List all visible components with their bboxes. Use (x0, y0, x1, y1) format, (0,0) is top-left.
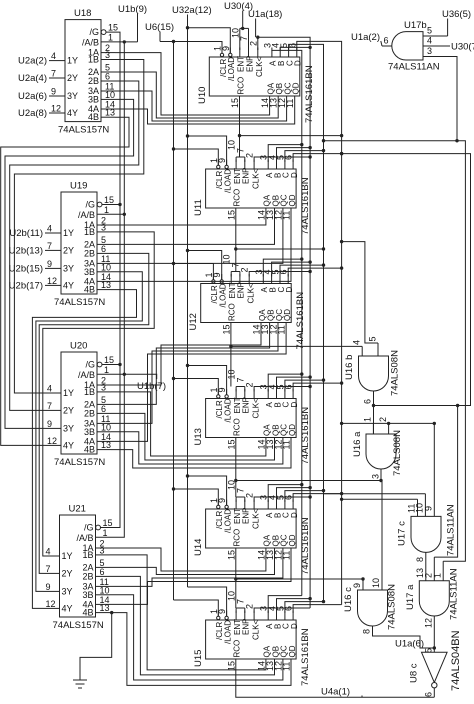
svg-text:U17 a: U17 a (405, 584, 416, 610)
wire U11 QB to U19 2A (111, 208, 275, 244)
wire U11 QA to U19 1A (111, 208, 266, 225)
svg-text:ENP: ENP (242, 168, 251, 184)
U16c input pin 10 stub (381, 481, 383, 591)
wire U13 QA to U20 1B (111, 392, 266, 456)
wire C bus junction to right corridor at y140.7 (324, 141, 466, 562)
wire B bus tap U11 (277, 148, 311, 162)
wire U21 1Y to U19 1B (43, 232, 154, 556)
U11 pin D (6) (292, 160, 294, 170)
svg-text:7: 7 (46, 564, 51, 574)
counter U15 74ALS161BN body (206, 620, 297, 659)
wire C bus tap U11 (285, 151, 324, 162)
svg-text:3Y: 3Y (62, 586, 73, 596)
svg-text:4B: 4B (82, 608, 93, 618)
svg-text:U32a(12): U32a(12) (172, 5, 212, 16)
svg-text:RCO: RCO (233, 529, 242, 547)
wire B bus tap U13 (277, 377, 311, 391)
wire U17a pin2 feeder from U16b output node (434, 406, 457, 558)
wire U12 QB to U20 2A (111, 323, 270, 405)
and gate U16b (74ALS08N) (359, 356, 389, 391)
svg-text:5: 5 (427, 26, 432, 36)
U17a output pin 12 to U8c input 5 (433, 616, 435, 652)
svg-text:U17b: U17b (404, 20, 427, 31)
wire C bus tap U13 (285, 380, 324, 391)
svg-text:1: 1 (103, 528, 108, 538)
U15 pin ENP (7) (244, 611, 246, 621)
svg-text:U1a(2): U1a(2) (351, 32, 380, 43)
U16b output pin 6 node (373, 391, 375, 434)
U12 pin ENP (7) (239, 274, 241, 284)
svg-text:U1b(9): U1b(9) (118, 4, 147, 15)
svg-text:D: D (294, 60, 303, 66)
svg-text:RCO: RCO (233, 640, 242, 658)
svg-text:ENT: ENT (228, 282, 237, 298)
svg-text:QD: QD (288, 424, 297, 436)
wire /LOAD branch U13 (188, 366, 227, 395)
wire B bus tap U14 (277, 488, 311, 502)
wire RCO U12 to ENT/ENP U13 (230, 323, 232, 387)
U14 pin /LOAD (9) (225, 505, 228, 508)
wire U14 QB to U21 2A (110, 548, 275, 575)
wire RCO U12 branch to U16b pin4 (231, 345, 362, 347)
wire C bus to U17c pin10 (324, 493, 426, 495)
U17c input pin 9 stub (433, 423, 435, 516)
wire CLK branch U12 (249, 272, 310, 277)
svg-text:RCO: RCO (236, 77, 245, 95)
U11 pin /CLR (1) (217, 165, 220, 168)
svg-text:ENT: ENT (237, 56, 246, 72)
wire U17c pin11 feeder (342, 498, 418, 500)
wire U15 QD to U21 4B (110, 613, 292, 686)
svg-text:15: 15 (104, 195, 114, 205)
svg-text:74ALS157N: 74ALS157N (54, 457, 105, 468)
svg-text:12: 12 (424, 618, 434, 628)
mux U21 74ALS157N body (60, 515, 96, 617)
wire U12 QC to U20 3A (111, 323, 278, 424)
svg-text:15: 15 (230, 98, 240, 108)
wire RCO U11 to ENT/ENP U12 (235, 208, 237, 272)
svg-text:13: 13 (101, 280, 111, 290)
svg-text:7: 7 (51, 69, 56, 79)
svg-text:U2a(6): U2a(6) (18, 91, 47, 102)
svg-text:CLK<: CLK< (255, 56, 264, 77)
wire D bus tap U15 (293, 605, 342, 613)
svg-text:4: 4 (51, 51, 56, 61)
U16c input pin 9 stub (362, 579, 364, 590)
wire A bus tap U11 (268, 145, 302, 162)
svg-text:3: 3 (105, 50, 110, 60)
wire /CLR net U6(15) to U10 pin1 and down (160, 42, 222, 54)
svg-text:12: 12 (47, 436, 57, 446)
svg-text:5: 5 (368, 336, 378, 341)
svg-text:4Y: 4Y (67, 108, 78, 118)
svg-text:2: 2 (245, 382, 255, 387)
U10 pin ENP (7) (248, 48, 250, 58)
inverter U8c (74ALS04BN) (422, 652, 448, 682)
U15 pin /LOAD (9) (225, 616, 228, 619)
svg-text:6: 6 (424, 692, 434, 697)
wire U12 QA to U20 1A (111, 323, 261, 386)
svg-text:15: 15 (226, 439, 236, 449)
svg-text:15: 15 (103, 518, 113, 528)
svg-text:U30(7): U30(7) (451, 42, 474, 53)
svg-text:D: D (290, 512, 299, 518)
wire D bus tap U11 (293, 154, 342, 162)
U18 pin /G (15) (101, 30, 106, 35)
wire /A/B branch U20 with port U1b(7) (97, 374, 157, 379)
wire /G net vertical U18-U21 (101, 32, 121, 527)
svg-text:2: 2 (245, 604, 255, 609)
wire /CLR branch U13 (174, 379, 219, 395)
U10 pin B (4) (279, 48, 281, 58)
wire /CLR branch U15 (174, 600, 219, 616)
svg-text:/A/B: /A/B (76, 533, 93, 543)
svg-text:CLK<: CLK< (246, 283, 255, 304)
svg-text:9: 9 (46, 582, 51, 592)
U12 pin A (3) (262, 274, 264, 284)
U17c output pin 8 to U17a pin 13 (425, 552, 427, 580)
svg-text:8: 8 (415, 557, 425, 562)
svg-text:CLK<: CLK< (251, 168, 260, 189)
svg-text:U16 b: U16 b (344, 355, 355, 380)
wire C bus tap U15 (285, 602, 324, 613)
svg-text:8: 8 (362, 629, 372, 634)
U21 pin /G (15) (96, 525, 101, 530)
U10 pin CLK (2) (257, 48, 259, 58)
svg-text:74ALS161BN: 74ALS161BN (295, 292, 306, 350)
U11 pin B (4) (276, 160, 278, 170)
wire U20 1Y to U18 1B (14, 60, 143, 394)
U11 pin ENP (7) (244, 160, 246, 170)
svg-text:D: D (290, 402, 299, 408)
and gate U17a (74ALS11AN) (419, 581, 449, 616)
svg-text:2B: 2B (84, 248, 95, 258)
wire A load bus x301.8 (272, 50, 302, 596)
svg-text:3Y: 3Y (67, 91, 78, 101)
svg-text:CLK<: CLK< (251, 619, 260, 640)
and gate U17c (74ALS11AN) (411, 516, 441, 552)
svg-text:12: 12 (47, 276, 57, 286)
svg-text:1B: 1B (84, 387, 95, 397)
svg-text:7: 7 (47, 401, 52, 411)
wire RCO U10 branch to D bus (240, 135, 342, 137)
svg-text:4Y: 4Y (63, 280, 74, 290)
svg-text:U2b(17): U2b(17) (9, 280, 43, 291)
U20 pin /G (15) (97, 362, 102, 367)
wire /G branch U19 (102, 204, 120, 206)
svg-text:4B: 4B (88, 112, 99, 122)
svg-text:U10: U10 (197, 87, 208, 104)
svg-text:2Y: 2Y (62, 568, 73, 578)
svg-text:4B: 4B (84, 445, 95, 455)
svg-text:ENP: ENP (242, 619, 251, 635)
svg-text:7: 7 (235, 599, 245, 604)
svg-text:6: 6 (363, 399, 373, 404)
wire U20 3Y to U18 3B (5, 99, 134, 428)
svg-text:RCO: RCO (233, 418, 242, 436)
svg-text:6: 6 (100, 567, 105, 577)
U15 pin /CLR (1) (217, 616, 220, 619)
U17c input pin 10 stub (424, 494, 426, 517)
svg-text:74ALS161BN: 74ALS161BN (300, 628, 311, 686)
svg-text:15: 15 (108, 23, 118, 33)
U10 pin /LOAD (9) (229, 53, 232, 56)
svg-text:3: 3 (427, 46, 432, 56)
U14 pin /CLR (1) (217, 505, 220, 508)
U10 pin ENT (10) (239, 48, 241, 58)
U15 pin ENT (10) (235, 611, 237, 621)
svg-text:/LOAD: /LOAD (219, 283, 228, 307)
svg-text:4: 4 (427, 36, 432, 46)
wire RCO U11 branch to C bus (236, 248, 324, 250)
svg-text:15: 15 (226, 210, 236, 220)
svg-text:U8 c: U8 c (409, 663, 420, 683)
wire U16b pin5 feeder from D bus (342, 242, 378, 343)
wire A bus tap U15 (268, 596, 302, 613)
svg-text:74ALS08N: 74ALS08N (390, 350, 401, 396)
wire U13 QD to U20 4B (111, 438, 291, 469)
svg-text:10: 10 (101, 262, 111, 272)
wire U10 QB to U18 2A (115, 72, 278, 118)
svg-text:U15: U15 (193, 650, 204, 667)
U12 pin /CLR (1) (212, 280, 215, 283)
U14 pin B (4) (276, 500, 278, 510)
U16a input pin 2 stub (388, 423, 390, 434)
svg-text:2Y: 2Y (63, 405, 74, 415)
svg-text:12: 12 (46, 599, 56, 609)
svg-text:4Y: 4Y (63, 440, 74, 450)
U11 pin CLK (2) (253, 160, 255, 170)
svg-text:CLK<: CLK< (251, 398, 260, 419)
svg-text:1B: 1B (88, 55, 99, 65)
svg-text:/LOAD: /LOAD (223, 398, 232, 422)
svg-text:9: 9 (51, 87, 56, 97)
wire U15 QC to U21 3B (110, 595, 283, 680)
svg-text:3B: 3B (82, 590, 93, 600)
svg-text:QD: QD (288, 194, 297, 206)
wire C bus tap U12 (280, 265, 324, 276)
svg-text:U14: U14 (193, 539, 204, 556)
svg-text:CLK<: CLK< (251, 508, 260, 529)
U13 pin ENT (10) (235, 389, 237, 399)
U10 pin /CLR (1) (220, 53, 223, 56)
svg-text:D: D (290, 623, 299, 629)
svg-text:ENP: ENP (245, 56, 254, 72)
U16a input pin 1 stub (372, 423, 374, 434)
U11 pin A (3) (267, 160, 269, 170)
svg-text:3B: 3B (84, 267, 95, 277)
wire /A/B net vertical U18-U21 (101, 41, 138, 43)
svg-text:6: 6 (101, 404, 106, 414)
svg-text:U2a(4): U2a(4) (18, 73, 47, 84)
and gate U16a (74ALS08N) (366, 434, 396, 469)
svg-text:U16 c: U16 c (343, 587, 354, 612)
wire U15 QB to U21 2B (110, 576, 275, 675)
wire C bus tap U14 (285, 491, 324, 502)
mux U19 74ALS157N body (61, 192, 97, 294)
wire RCO U15 to bottom rail (236, 659, 434, 697)
svg-text:1: 1 (433, 573, 443, 578)
counter U12 74ALS161BN body (201, 284, 292, 323)
svg-text:U16 a: U16 a (352, 431, 363, 457)
ground symbol (73, 679, 87, 681)
svg-text:ENP: ENP (242, 397, 251, 413)
svg-text:9: 9 (352, 583, 362, 588)
wire RCO U10 to ENT/ENP U11 (239, 96, 241, 157)
wire /LOAD net U32a(12) to U10 pin9 and down (188, 28, 231, 53)
svg-text:U2b(13): U2b(13) (9, 245, 43, 256)
U15 pin CLK (2) (253, 611, 255, 621)
wire U13 QC to U20 3B (111, 432, 283, 464)
wire ground branch from U21 4B (80, 613, 112, 680)
svg-text:7: 7 (235, 377, 245, 382)
U11 pin C (5) (284, 160, 286, 170)
svg-text:6: 6 (105, 72, 110, 82)
U14 pin ENP (7) (244, 500, 246, 510)
svg-text:U19: U19 (70, 181, 87, 192)
wire U13 QB to U20 2B (111, 413, 275, 460)
and gate U17b (74ALS11AN) output to left (392, 32, 423, 60)
U10 pin D (6) (296, 48, 298, 58)
svg-text:1: 1 (104, 365, 109, 375)
wire U21 2Y to U19 2B (39, 253, 149, 573)
U13 pin /LOAD (9) (225, 395, 228, 398)
wire U20 2Y to U18 2B (10, 81, 139, 410)
wire B bus tap U12 (272, 262, 311, 276)
svg-text:ENP: ENP (237, 282, 246, 298)
U13 pin A (3) (267, 389, 269, 399)
svg-text:10: 10 (100, 585, 110, 595)
wire B load bus joins x310.1 (280, 47, 310, 50)
U15 pin D (6) (292, 611, 294, 621)
svg-text:2B: 2B (82, 571, 93, 581)
wire B bus tap U15 (277, 599, 311, 613)
U15 pin C (5) (284, 611, 286, 621)
svg-text:U20: U20 (70, 341, 87, 352)
svg-text:/G: /G (89, 27, 99, 37)
U14 pin C (5) (284, 500, 286, 510)
wire RCO U14 to ENT/ENP U15 (235, 548, 237, 608)
svg-text:15: 15 (226, 550, 236, 560)
U14 pin A (3) (267, 500, 269, 510)
svg-text:U4a(1): U4a(1) (321, 687, 350, 698)
wire U30(4) tie bar ENT ENP of U10 (240, 27, 249, 29)
svg-text:74ALS157N: 74ALS157N (58, 125, 109, 136)
svg-text:U18: U18 (74, 8, 91, 19)
svg-text:74ALS11AN: 74ALS11AN (446, 504, 457, 556)
svg-text:10: 10 (371, 578, 381, 588)
svg-text:3: 3 (371, 474, 381, 479)
svg-text:U12: U12 (188, 313, 199, 330)
svg-text:15: 15 (104, 355, 114, 365)
U15 pin A (3) (267, 611, 269, 621)
U17b output pin 6 wire to U1a(2) (382, 45, 392, 47)
svg-text:/LOAD: /LOAD (223, 620, 232, 644)
svg-text:74ALS11AN: 74ALS11AN (388, 62, 440, 73)
wire RCO U14 branch to U16c pin9 (236, 578, 363, 580)
svg-text:1B: 1B (84, 227, 95, 237)
U15 pin B (4) (276, 611, 278, 621)
svg-text:15: 15 (221, 324, 231, 334)
svg-text:ENT: ENT (233, 508, 242, 524)
svg-text:U6(15): U6(15) (145, 22, 174, 33)
wire U21 4Y to U19 4B (32, 290, 136, 609)
U17b input pin 3 wire down to RCO chain (423, 57, 457, 141)
U12 pin ENT (10) (230, 274, 232, 284)
wire U14 QD to U21 4A (110, 548, 292, 604)
svg-text:7: 7 (239, 36, 249, 41)
wire U12 QD to U20 4A (111, 323, 286, 442)
svg-text:QD: QD (288, 534, 297, 546)
svg-text:7: 7 (235, 488, 245, 493)
U11 pin ENT (10) (235, 160, 237, 170)
svg-text:9: 9 (424, 506, 434, 511)
svg-text:74ALS157N: 74ALS157N (53, 620, 104, 631)
svg-text:6: 6 (384, 36, 389, 46)
wire /LOAD branch U14 (188, 476, 227, 505)
svg-text:U2b(15): U2b(15) (9, 263, 43, 274)
U19 pin /G (15) (97, 202, 102, 207)
svg-text:4B: 4B (84, 285, 95, 295)
svg-text:7: 7 (47, 241, 52, 251)
U10 pin C (5) (288, 48, 290, 58)
wire D bus tap U14 (293, 494, 342, 502)
wire U21 3Y to U19 3B (36, 272, 142, 592)
svg-text:QD: QD (288, 645, 297, 657)
counter U11 74ALS161BN body (206, 169, 297, 208)
svg-text:1: 1 (104, 205, 109, 215)
svg-text:6: 6 (101, 244, 106, 254)
counter U13 74ALS161BN body (206, 399, 297, 438)
svg-text:1: 1 (108, 32, 113, 42)
wire /CLR branch U12 (174, 264, 214, 280)
wire /G branch U20 (102, 364, 120, 366)
wire D load bus x341.6 (297, 41, 342, 604)
svg-text:1B: 1B (82, 550, 93, 560)
svg-text:12: 12 (51, 104, 61, 114)
svg-text:/G: /G (84, 523, 94, 533)
svg-text:1Y: 1Y (63, 388, 74, 398)
svg-text:/G: /G (85, 200, 95, 210)
svg-text:3Y: 3Y (63, 423, 74, 433)
U17b input pin 5 wire to U36(5) (423, 35, 448, 37)
U16a output pin 3 node (380, 469, 382, 481)
wire U10 QD to U18 4A (115, 96, 295, 124)
and gate U16c (74ALS08N) (358, 590, 388, 626)
U13 pin CLK (2) (253, 389, 255, 399)
U12 pin D (6) (287, 274, 289, 284)
svg-text:ENT: ENT (233, 619, 242, 635)
svg-text:10: 10 (105, 90, 115, 100)
svg-text:/LOAD: /LOAD (223, 509, 232, 533)
svg-text:2Y: 2Y (67, 73, 78, 83)
svg-text:RCO: RCO (233, 189, 242, 207)
wire A bus tap U12 (263, 259, 302, 276)
wire D bus right extension at U11 level to x472.5 (342, 154, 471, 406)
wire U11 QD to U19 4A (111, 208, 291, 281)
U12 pin C (5) (279, 274, 281, 284)
svg-text:4: 4 (47, 224, 52, 234)
svg-text:4Y: 4Y (62, 603, 73, 613)
U13 pin ENP (7) (244, 389, 246, 399)
svg-text:U11: U11 (193, 199, 204, 216)
wire /LOAD branch U11 (188, 136, 227, 165)
svg-text:1Y: 1Y (63, 228, 74, 238)
svg-text:/LOAD: /LOAD (227, 57, 236, 81)
svg-text:D: D (290, 172, 299, 178)
svg-text:U2a(8): U2a(8) (18, 108, 47, 119)
svg-text:1: 1 (363, 417, 373, 422)
